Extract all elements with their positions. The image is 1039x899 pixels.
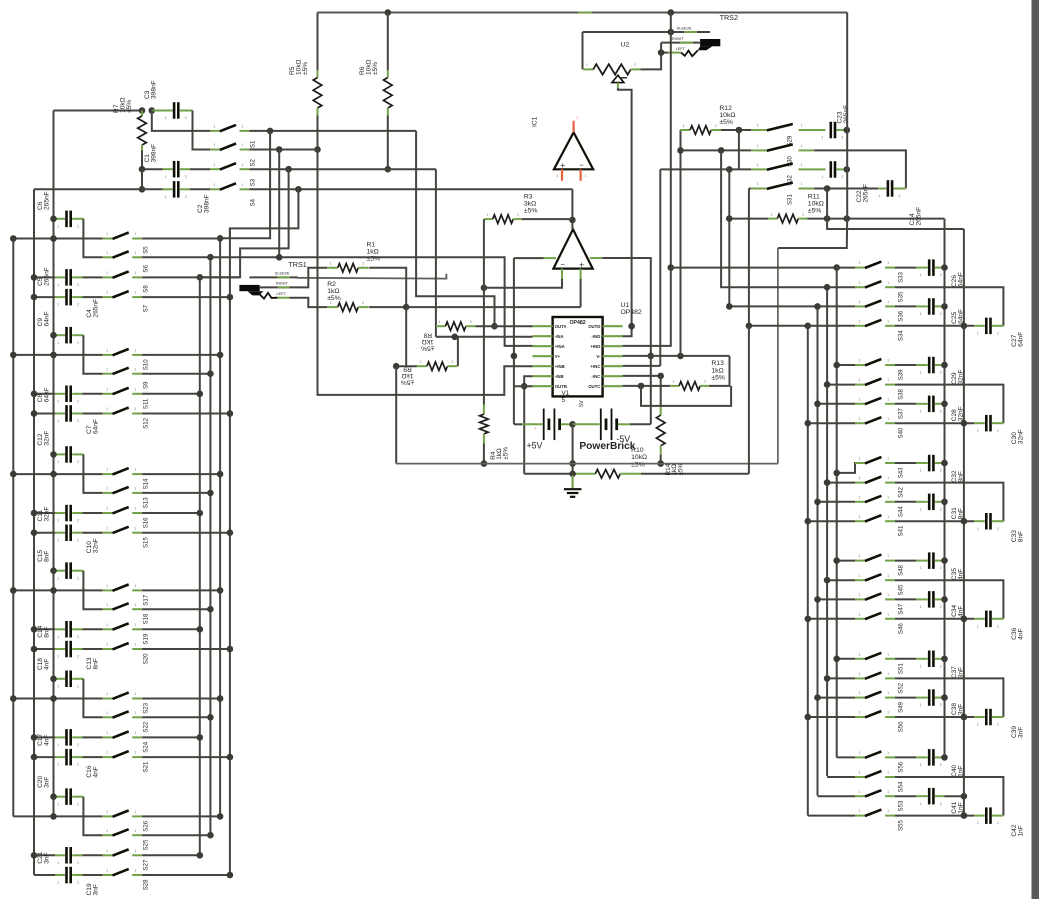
junction D4 [805, 616, 812, 623]
svg-text:±5%: ±5% [327, 295, 341, 302]
svg-text:2: 2 [940, 566, 942, 570]
switch S25 [103, 834, 113, 836]
svg-text:1: 1 [134, 251, 136, 255]
wire S26 to collector [142, 815, 220, 817]
capacitor C25 [895, 305, 916, 307]
svg-text:1: 1 [879, 194, 881, 198]
svg-text:5: 5 [562, 397, 566, 404]
svg-text:1: 1 [106, 603, 108, 607]
wire S5 to collector [142, 238, 220, 240]
svg-text:1: 1 [57, 881, 59, 885]
svg-text:1: 1 [920, 664, 922, 668]
svg-text:1: 1 [106, 507, 108, 511]
switch S46 [855, 618, 865, 620]
wire S45 to outer jog [895, 580, 1003, 619]
junction R12/S29 drop [736, 127, 743, 134]
svg-text:1: 1 [859, 652, 861, 656]
svg-text:1: 1 [887, 281, 889, 285]
svg-text:8nF: 8nF [958, 508, 965, 519]
wire row S17 [13, 589, 102, 591]
switch S52 [855, 677, 865, 679]
svg-text:1: 1 [585, 174, 587, 178]
junction ground/R10 [569, 471, 576, 478]
resistor R14 vertical [660, 376, 662, 407]
junction C9 lead [50, 332, 57, 339]
junction R3 net/op-amp - [481, 285, 488, 292]
svg-text:10kΩ: 10kΩ [719, 112, 735, 119]
capacitor C7 [34, 413, 55, 415]
wire S41 to bus E2 [895, 520, 974, 522]
wire -INA row [436, 336, 533, 338]
switch S50 [855, 716, 865, 718]
resistor R2 [327, 306, 338, 308]
junction collector1 top [197, 274, 204, 281]
wire row S45 [827, 579, 855, 581]
svg-text:S53: S53 [898, 800, 905, 811]
svg-text:3kΩ: 3kΩ [524, 201, 536, 208]
wire S9 to collector [142, 373, 210, 375]
svg-text:398nF: 398nF [150, 144, 157, 163]
svg-text:1: 1 [757, 124, 759, 128]
svg-text:1: 1 [134, 487, 136, 491]
svg-text:265nF: 265nF [92, 299, 99, 318]
junction bus C row [50, 235, 57, 242]
svg-text:3nF: 3nF [43, 852, 50, 863]
junction bus E1 row1 [941, 264, 948, 271]
svg-text:±5%: ±5% [719, 119, 733, 126]
junction D2 [824, 479, 831, 486]
switch S43 [855, 462, 865, 464]
svg-text:2: 2 [362, 262, 364, 266]
svg-text:1: 1 [859, 397, 861, 401]
svg-text:1: 1 [106, 751, 108, 755]
svg-text:1: 1 [859, 612, 861, 616]
svg-text:1: 1 [134, 829, 136, 833]
svg-text:1: 1 [859, 281, 861, 285]
svg-text:1: 1 [134, 643, 136, 647]
svg-text:2: 2 [802, 212, 804, 216]
wire S15 to collector [142, 532, 230, 534]
wire S30 row [681, 149, 752, 151]
svg-text:1: 1 [859, 593, 861, 597]
svg-text:1: 1 [134, 407, 136, 411]
pin +INC [603, 365, 623, 367]
svg-text:IC1: IC1 [532, 116, 539, 127]
svg-text:1: 1 [859, 300, 861, 304]
switch S23 [103, 698, 113, 700]
junction D2 [824, 577, 831, 584]
svg-text:1: 1 [57, 538, 59, 542]
svg-text:±5%: ±5% [401, 379, 414, 386]
junction bus C row [50, 695, 57, 702]
switch S30 [751, 149, 767, 151]
svg-text:4nF: 4nF [43, 735, 50, 746]
svg-text:1: 1 [920, 371, 922, 375]
junction collector4 [227, 529, 234, 536]
wire -INC row [623, 375, 661, 377]
svg-text:-INA: -INA [555, 334, 564, 339]
svg-text:64nF: 64nF [958, 309, 965, 324]
battery -5V [573, 423, 600, 425]
wire collector D4 [807, 326, 809, 816]
switch S36 [855, 305, 865, 307]
wire row S52 [827, 677, 855, 679]
svg-text:1: 1 [977, 429, 979, 433]
junction bus C row [50, 813, 57, 820]
wire TRS2 sleeve [583, 31, 711, 33]
wire C1-C2 link [141, 169, 143, 189]
svg-text:1: 1 [887, 319, 889, 323]
junction bus A row [10, 471, 17, 478]
svg-text:S33: S33 [898, 271, 905, 282]
svg-text:2: 2 [77, 399, 79, 403]
junction bus E1 row3 [941, 596, 948, 603]
svg-text:1: 1 [977, 723, 979, 727]
svg-text:2: 2 [997, 821, 999, 825]
wire C18 right lead down [83, 679, 102, 718]
svg-text:1: 1 [242, 125, 244, 129]
svg-text:1: 1 [106, 643, 108, 647]
capacitor C38 [895, 697, 916, 699]
svg-text:−: − [579, 160, 584, 169]
capacitor C19 [34, 874, 55, 876]
wire R1 right [369, 268, 406, 307]
svg-text:1: 1 [887, 515, 889, 519]
capacitor C11 [34, 512, 55, 514]
capacitor C2 [34, 188, 163, 190]
wire row S55 [808, 815, 855, 817]
svg-text:2: 2 [577, 116, 579, 120]
switch S32 [751, 168, 767, 170]
wire C20 right lead down [83, 797, 102, 836]
wire R13 right jog [709, 356, 729, 386]
svg-text:64nF: 64nF [958, 272, 965, 287]
capacitor C15 [54, 570, 66, 572]
svg-text:1: 1 [106, 367, 108, 371]
junction bus B row4 [31, 646, 38, 653]
junction S2 drop [276, 146, 283, 153]
svg-text:1: 1 [57, 224, 59, 228]
svg-text:1: 1 [859, 378, 861, 382]
svg-text:1: 1 [887, 691, 889, 695]
junction R6/S3 row [385, 166, 392, 173]
wire collector D1 [836, 268, 838, 758]
capacitor C29 [895, 364, 916, 366]
wire S20 to collector [142, 648, 230, 650]
svg-text:1: 1 [106, 849, 108, 853]
svg-text:U2: U2 [621, 42, 630, 49]
switch S27 [103, 854, 113, 856]
svg-text:1kΩ: 1kΩ [401, 372, 413, 379]
junction rail/R6 [385, 9, 392, 16]
svg-text:1: 1 [611, 468, 613, 472]
switch S42 [855, 482, 865, 484]
wire S7 to collector [142, 296, 230, 298]
svg-text:2: 2 [77, 519, 79, 523]
svg-text:1: 1 [134, 271, 136, 275]
switch S5 [103, 238, 113, 240]
junction collector1 [197, 734, 204, 741]
svg-text:OP482: OP482 [570, 320, 586, 326]
svg-text:S8: S8 [142, 285, 149, 293]
wire net riser right [777, 248, 779, 464]
svg-text:1: 1 [859, 476, 861, 480]
switch S7 [103, 296, 113, 298]
svg-text:1: 1 [242, 163, 244, 167]
wire sleeve to pot left [582, 32, 584, 69]
capacitor C10 [34, 532, 55, 534]
switch S1 [210, 130, 220, 132]
svg-text:64nF: 64nF [43, 311, 50, 326]
svg-text:2: 2 [940, 507, 942, 511]
wire S50 to bus E2 [895, 716, 974, 718]
svg-text:R13: R13 [711, 360, 724, 367]
svg-text:+: + [579, 259, 584, 269]
wire S42 to outer jog [895, 483, 1003, 522]
op-amp - input lead [561, 269, 563, 279]
svg-text:+IND: +IND [590, 344, 600, 349]
switch S22 [103, 716, 113, 718]
capacitor C28 [895, 403, 916, 405]
junction D1 [833, 362, 840, 369]
resistor R1 [327, 267, 338, 269]
wire +INC riser [659, 169, 661, 366]
wire S46 to bus E2 [895, 618, 974, 620]
wire R12 drop to S32 [738, 130, 740, 169]
svg-text:±5%: ±5% [502, 447, 509, 460]
junction bus B row4 [31, 529, 38, 536]
svg-text:S40: S40 [898, 427, 905, 438]
junction D4 [805, 714, 812, 721]
pin OUTC [603, 385, 623, 387]
svg-text:1: 1 [859, 691, 861, 695]
svg-text:1: 1 [887, 476, 889, 480]
capacitor C5 [34, 276, 55, 278]
switch S15 [103, 532, 113, 534]
junction bus E2 row4 [961, 518, 968, 525]
svg-text:1: 1 [213, 125, 215, 129]
switch S2 [210, 149, 220, 151]
junction D3 [814, 499, 821, 506]
capacitor C27 outer [974, 325, 985, 327]
svg-text:1: 1 [801, 144, 803, 148]
svg-text:1: 1 [165, 116, 167, 120]
svg-text:1: 1 [134, 349, 136, 353]
svg-text:1: 1 [134, 291, 136, 295]
svg-text:2: 2 [470, 320, 472, 324]
junction R9/-INA [451, 334, 458, 341]
junction R3 right [569, 217, 576, 224]
wire S36 feed [729, 305, 817, 307]
wire row S40 [808, 422, 855, 424]
svg-text:1nF: 1nF [1018, 825, 1025, 836]
svg-text:2: 2 [940, 409, 942, 413]
svg-text:1: 1 [419, 360, 421, 364]
wire collector D2 [826, 287, 828, 776]
svg-text:1: 1 [977, 527, 979, 531]
svg-text:S39: S39 [898, 369, 905, 380]
capacitor C17 [34, 736, 55, 738]
svg-text:OUTD: OUTD [588, 324, 600, 329]
junction collector3 [217, 587, 224, 594]
svg-text:1: 1 [106, 526, 108, 530]
junction S33 feed/collector [833, 264, 840, 271]
wire S8 to collector [142, 276, 240, 278]
svg-text:2: 2 [77, 419, 79, 423]
svg-text:1: 1 [887, 495, 889, 499]
wire S33 feed [671, 267, 837, 269]
junction bus E2 row4 [961, 323, 968, 330]
svg-text:2: 2 [77, 743, 79, 747]
junction D2 [824, 381, 831, 388]
wire TRS1 right pin [260, 268, 328, 288]
svg-text:S1: S1 [250, 140, 257, 148]
svg-text:1: 1 [242, 183, 244, 187]
svg-text:-IND: -IND [592, 334, 601, 339]
svg-text:S38: S38 [898, 388, 905, 399]
resistor R9 [396, 365, 417, 367]
svg-text:1: 1 [859, 711, 861, 715]
svg-text:1: 1 [57, 635, 59, 639]
svg-text:1: 1 [920, 507, 922, 511]
svg-text:5V: 5V [579, 400, 585, 407]
capacitor C41 [895, 795, 916, 797]
svg-text:1: 1 [57, 763, 59, 767]
junction S30/S35 riser [718, 147, 725, 154]
svg-text:1: 1 [106, 810, 108, 814]
wire row S46 [808, 618, 855, 620]
junction R7 top [139, 107, 146, 114]
wire V- row [623, 355, 730, 357]
wire row S42 [827, 482, 855, 484]
junction R14 top [657, 373, 664, 380]
junction bus B row3 [31, 734, 38, 741]
svg-text:1: 1 [165, 195, 167, 199]
switch S45 [855, 579, 865, 581]
switch S31 [749, 188, 751, 190]
junction collector3 [217, 695, 224, 702]
junction C2 left [139, 186, 146, 193]
wire S10 to collector [142, 354, 220, 356]
wire R8 right to OUTA [475, 325, 532, 327]
svg-text:1: 1 [821, 136, 823, 140]
svg-text:1: 1 [165, 175, 167, 179]
wire S22 to collector [142, 716, 210, 718]
svg-text:1: 1 [920, 566, 922, 570]
wire row S14 [13, 473, 102, 475]
svg-text:2: 2 [185, 116, 187, 120]
wire row S39 [837, 364, 855, 366]
svg-text:8nF: 8nF [1018, 531, 1025, 542]
wire op-amp feedback stub [544, 257, 557, 259]
svg-text:1nF: 1nF [958, 766, 965, 777]
svg-text:1: 1 [859, 574, 861, 578]
svg-text:1: 1 [134, 849, 136, 853]
svg-text:1: 1 [57, 399, 59, 403]
svg-text:S19: S19 [142, 633, 149, 644]
switch S11 [103, 393, 113, 395]
ground [571, 475, 573, 488]
wire S1 net jog [416, 131, 494, 326]
junction battery mid [569, 421, 576, 428]
svg-text:S37: S37 [898, 408, 905, 419]
resistor R4 vertical [483, 405, 485, 415]
svg-text:1: 1 [57, 684, 59, 688]
svg-text:1: 1 [920, 703, 922, 707]
wire rail green pin [578, 12, 592, 14]
IC U1 OP482 [553, 317, 603, 396]
svg-text:1: 1 [106, 349, 108, 353]
capacitor C9 [54, 334, 66, 336]
svg-text:S11: S11 [142, 398, 149, 409]
capacitor C3 [152, 110, 173, 112]
wire S2 drop to collector [278, 150, 280, 258]
wire TRS1 left pin [258, 292, 278, 298]
junction collector2 [207, 714, 214, 721]
svg-text:32nF: 32nF [43, 506, 50, 521]
capacitor C21 [34, 854, 55, 856]
svg-text:S34: S34 [898, 330, 905, 341]
svg-text:S49: S49 [898, 701, 905, 712]
svg-text:1: 1 [801, 163, 803, 167]
junction bus E1 row1 [941, 362, 948, 369]
svg-text:3nF: 3nF [92, 884, 99, 895]
svg-text:S23: S23 [142, 702, 149, 713]
svg-text:1: 1 [757, 144, 759, 148]
svg-text:V1: V1 [562, 390, 570, 397]
svg-text:1: 1 [977, 624, 979, 628]
svg-text:3: 3 [557, 174, 559, 178]
capacitor C6 [54, 218, 66, 220]
switch S10 [103, 354, 113, 356]
junction bus B row3 [31, 274, 38, 281]
svg-text:S14: S14 [142, 478, 149, 489]
capacitor C14 [34, 628, 55, 630]
junction collector2 top [207, 254, 214, 261]
wire S3 net riser [435, 169, 437, 337]
pin V- [603, 355, 623, 357]
svg-text:1: 1 [487, 213, 489, 217]
wire row S47 [818, 598, 856, 600]
wire S12 to collector [142, 413, 230, 415]
capacitor C23 [814, 129, 825, 131]
capacitor C30 outer [974, 422, 985, 424]
svg-text:S50: S50 [898, 721, 905, 732]
junction collector4 [227, 410, 234, 417]
svg-text:±5%: ±5% [421, 345, 434, 352]
junction R9 left [393, 363, 400, 370]
switch S37 [855, 403, 865, 405]
wire S23 to collector [142, 698, 220, 700]
svg-text:2: 2 [940, 802, 942, 806]
svg-text:1: 1 [106, 407, 108, 411]
svg-text:1: 1 [920, 273, 922, 277]
junction S2 drop on S6 line [276, 254, 283, 261]
svg-text:2: 2 [940, 371, 942, 375]
svg-text:1: 1 [330, 262, 332, 266]
svg-text:1: 1 [887, 672, 889, 676]
svg-text:1: 1 [213, 183, 215, 187]
wire C15 right lead down [83, 571, 102, 610]
wire R3 right [522, 218, 573, 220]
svg-text:1: 1 [887, 751, 889, 755]
svg-text:1: 1 [920, 312, 922, 316]
svg-text:2: 2 [77, 802, 79, 806]
svg-text:S2: S2 [250, 159, 257, 167]
svg-text:1: 1 [57, 802, 59, 806]
svg-text:1: 1 [887, 378, 889, 382]
switch S48 [855, 560, 865, 562]
